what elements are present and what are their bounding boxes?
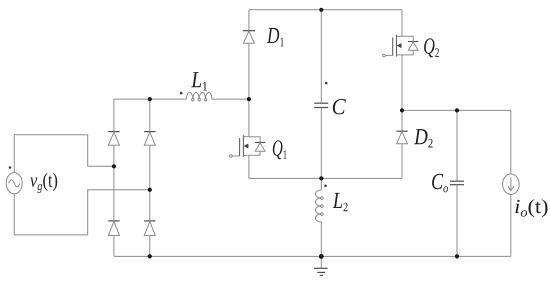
node bottom rail / bridge right <box>148 254 152 258</box>
ground <box>314 256 328 275</box>
label io(t) <box>515 199 547 217</box>
wire L1 to node <box>212 98 249 100</box>
diode D1 <box>243 10 255 99</box>
node vg- bridge right <box>148 188 152 192</box>
transistor Q2 <box>383 10 419 111</box>
wire vg top lead <box>14 135 114 173</box>
marker * at vg <box>9 166 12 169</box>
transistor Q1 <box>230 99 266 178</box>
node middle rail / L2 <box>319 176 323 180</box>
label L2 <box>333 193 348 211</box>
node bottom rail / Co <box>455 254 459 258</box>
bridge diode top-left <box>108 99 119 166</box>
label C <box>333 99 346 114</box>
node top rail / C <box>319 8 323 12</box>
label Q2 <box>424 38 439 57</box>
wire vg bottom lead <box>14 190 150 235</box>
label D1 <box>267 28 284 46</box>
bridge diode bottom-right <box>144 190 155 257</box>
wire middle rail (Q1 source to D2) <box>249 177 402 179</box>
label Co <box>432 174 448 193</box>
wire rectifier top rail <box>114 98 186 100</box>
label Q1 <box>273 140 287 159</box>
node rectifier top right <box>148 97 152 101</box>
wire top rail <box>249 9 402 11</box>
node L1 / D1 / Q1 <box>247 97 251 101</box>
marker * at L1 <box>180 92 183 95</box>
diode D2 <box>396 110 407 178</box>
bridge diode bottom-left <box>108 166 119 256</box>
wire output top rail <box>402 109 511 111</box>
marker * at L2 <box>324 185 327 188</box>
node Q2 source / D2 <box>400 108 404 112</box>
ac source vg(t) <box>6 173 22 194</box>
node vg+ bridge left <box>112 164 116 168</box>
node output rail / Co <box>455 108 459 112</box>
capacitor Co <box>450 110 464 256</box>
label D2 <box>414 129 433 147</box>
bridge diode top-right <box>144 99 155 190</box>
marker * at C <box>325 82 328 85</box>
label vg(t) <box>30 173 57 193</box>
wire bottom rail <box>114 255 511 257</box>
node bottom rail / ground <box>319 254 324 259</box>
current source io(t) <box>503 110 520 256</box>
inductor L2 <box>315 178 323 256</box>
label L1 <box>191 72 207 90</box>
capacitor C <box>314 10 328 179</box>
inductor L1 <box>186 93 212 101</box>
